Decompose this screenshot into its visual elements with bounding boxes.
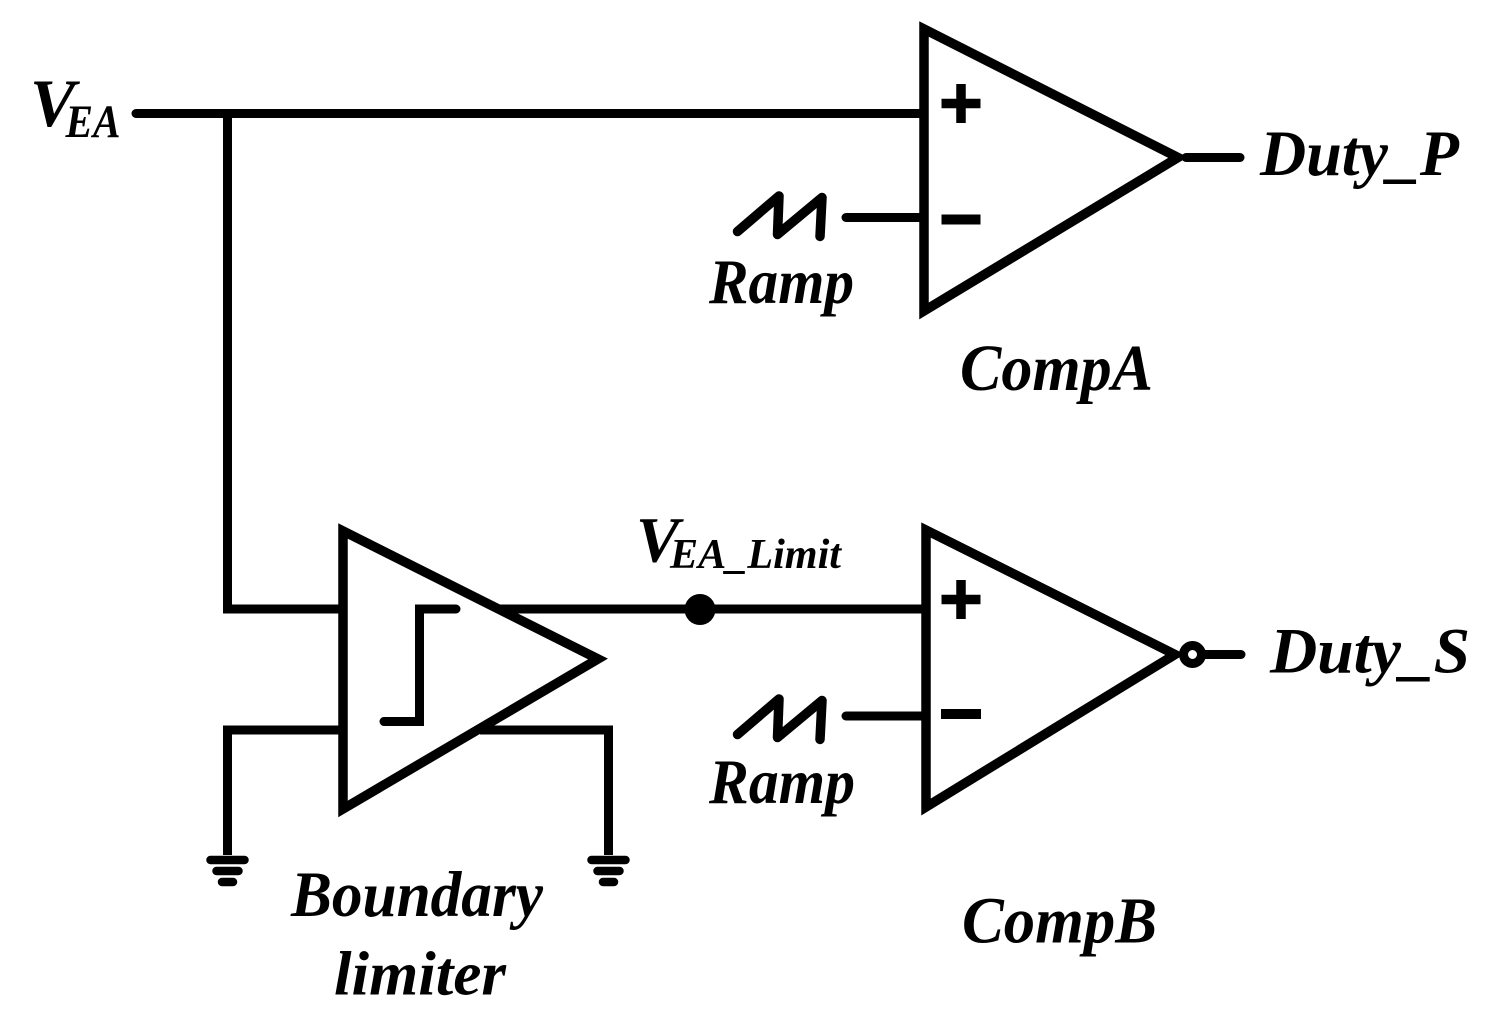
svg-text:Ramp: Ramp bbox=[708, 747, 855, 817]
svg-text:EA_Limit: EA_Limit bbox=[669, 532, 842, 578]
svg-text:Boundary: Boundary bbox=[290, 859, 544, 931]
svg-text:Duty_S: Duty_S bbox=[1269, 616, 1470, 688]
svg-text:Duty_P: Duty_P bbox=[1259, 118, 1460, 190]
svg-text:CompA: CompA bbox=[960, 332, 1153, 405]
svg-text:Ramp: Ramp bbox=[708, 247, 854, 317]
svg-text:EA: EA bbox=[65, 96, 121, 148]
svg-text:CompB: CompB bbox=[962, 885, 1157, 958]
svg-text:limiter: limiter bbox=[334, 941, 507, 1009]
